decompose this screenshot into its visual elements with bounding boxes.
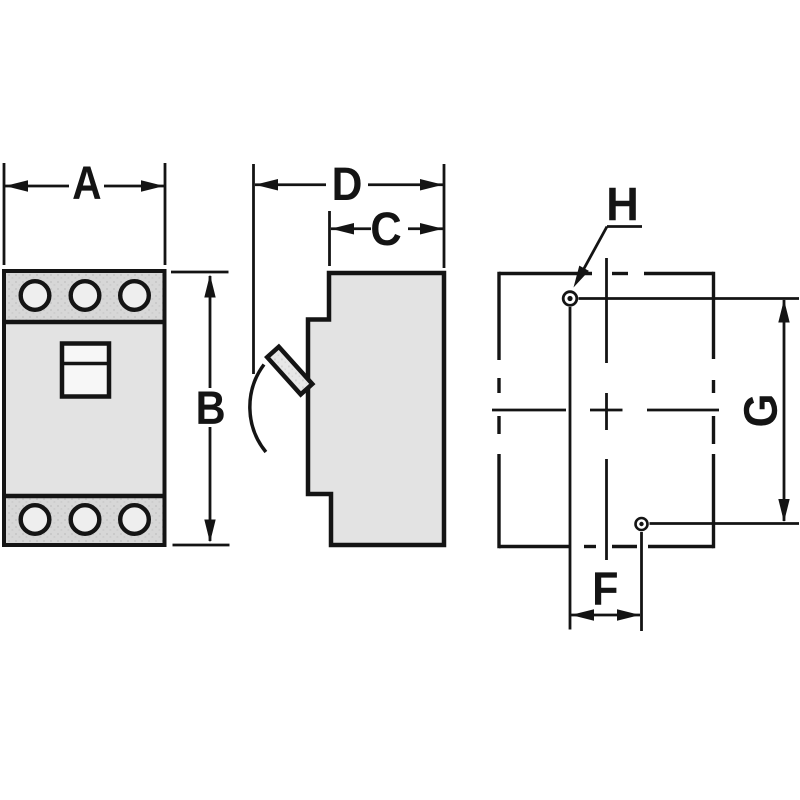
dimension A arrowhead right	[141, 180, 164, 191]
top terminal strip	[6, 273, 163, 320]
dimension G arrowhead up	[778, 300, 789, 323]
dimension D arrowhead right	[420, 179, 443, 190]
top terminal circle 3	[120, 281, 149, 310]
dimension A line	[5, 185, 69, 188]
handle travel arc	[250, 365, 266, 453]
leader arrowhead	[574, 266, 589, 288]
breaker front body	[4, 271, 165, 545]
dimension A arrowhead left	[5, 180, 28, 191]
top mounting hole	[563, 292, 577, 306]
horizontal centerline	[492, 409, 566, 412]
dimension C line	[331, 227, 371, 230]
label C	[372, 212, 400, 245]
bottom terminal strip	[6, 498, 163, 543]
leader diagonal to top hole	[581, 227, 607, 275]
toggle handle	[267, 347, 312, 395]
label F	[595, 572, 617, 604]
dimension C arrowhead left	[331, 223, 354, 234]
extension line below bottom hole	[640, 532, 643, 631]
bottom terminal circle 1	[21, 505, 50, 534]
dimension D extension line left	[252, 164, 255, 374]
dimension B extension line bottom	[173, 544, 230, 547]
label D	[335, 168, 361, 200]
label B	[198, 392, 223, 424]
bottom strip divider line	[4, 494, 165, 499]
dimension C extension line left	[328, 211, 331, 266]
dimension G line	[783, 300, 786, 521]
dimension D line	[255, 183, 326, 186]
dimension B extension line top	[171, 271, 229, 274]
leader line under H	[607, 225, 642, 228]
dimension B line	[209, 276, 212, 388]
label H	[609, 188, 636, 220]
top strip divider line	[4, 320, 165, 325]
dimension F arrowhead left	[571, 609, 594, 620]
bottom terminal circle 2	[71, 505, 100, 534]
breaker side profile	[308, 273, 444, 545]
label G (rotated)	[744, 396, 777, 425]
dashed outline left edge	[497, 272, 500, 360]
dimension F line	[571, 614, 640, 617]
vertical centerline	[605, 258, 608, 363]
extension line below top hole	[569, 307, 572, 630]
extension line from top hole to right	[579, 297, 800, 300]
label A	[73, 167, 100, 199]
dimension B arrowhead up	[204, 275, 215, 298]
handle window divider	[64, 362, 107, 366]
dashed outline right edge	[712, 272, 715, 359]
dimension A extension line left	[3, 163, 6, 265]
dimension D arrowhead left	[255, 179, 278, 190]
dimension B arrowhead down	[204, 520, 215, 543]
top terminal circle 2	[71, 281, 100, 310]
dimension C arrowhead right	[420, 223, 443, 234]
bottom mounting hole	[636, 518, 648, 530]
dimension G arrowhead down	[778, 499, 789, 522]
dashed outline top edge	[499, 272, 592, 275]
dashed outline bottom edge	[499, 545, 569, 548]
dimension D extension line right	[443, 164, 446, 268]
bottom terminal circle 3	[120, 505, 149, 534]
dimension A extension line right	[164, 163, 167, 265]
top terminal circle 1	[21, 281, 50, 310]
dimension F arrowhead right	[617, 609, 640, 620]
extension line from bottom hole to right	[650, 522, 800, 525]
handle window	[62, 344, 109, 397]
